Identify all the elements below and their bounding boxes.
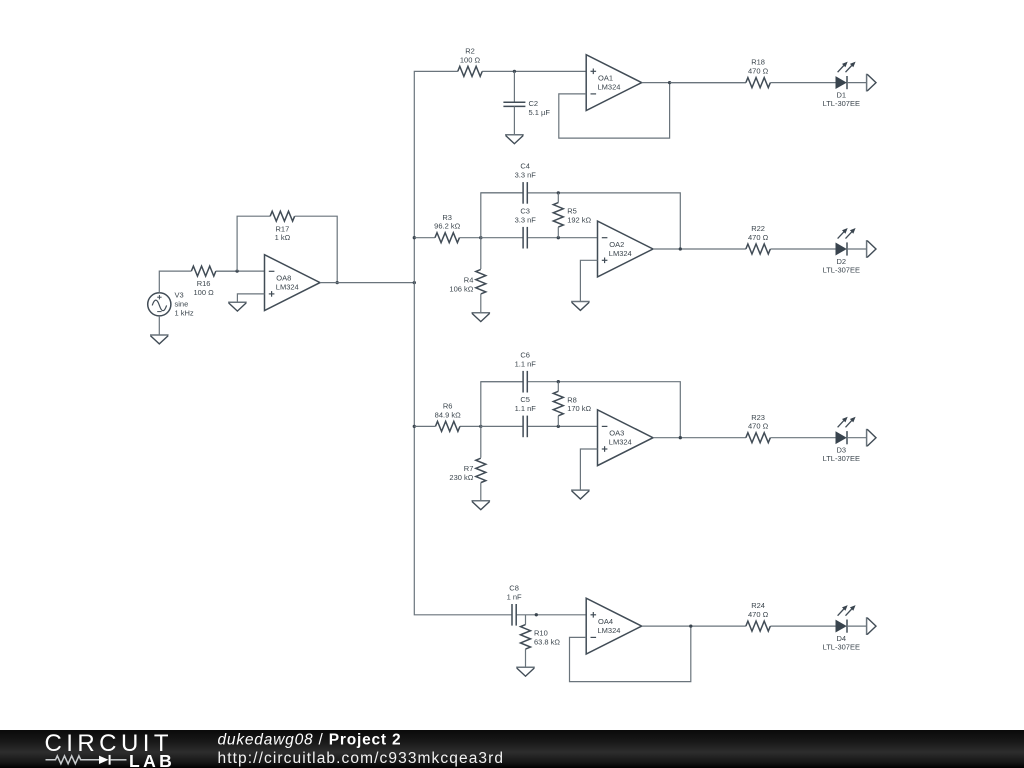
- svg-text:63.8 kΩ: 63.8 kΩ: [534, 638, 560, 647]
- svg-text:R8: R8: [567, 395, 577, 404]
- node C6/R8 junction: [557, 380, 560, 383]
- svg-text:LM324: LM324: [609, 438, 632, 447]
- node OA3 output junction: [679, 436, 682, 439]
- svg-text:170 kΩ: 170 kΩ: [567, 404, 591, 413]
- terminal output 3: [867, 429, 876, 447]
- resistor R24: [746, 601, 836, 631]
- svg-text:R16: R16: [197, 279, 211, 288]
- wire OA4 output: [642, 625, 746, 627]
- ground below C2: [505, 135, 524, 144]
- svg-text:1 nF: 1 nF: [507, 592, 522, 601]
- terminal output 1: [867, 74, 876, 92]
- node bus row 2 tap: [413, 236, 416, 239]
- resistor R4: [449, 269, 485, 312]
- svg-text:1.1 nF: 1.1 nF: [515, 404, 537, 413]
- ground at OA2 + input: [571, 302, 590, 311]
- resistor R3: [414, 213, 481, 243]
- node OA1 output junction: [668, 81, 671, 84]
- node bus row 3 tap: [413, 425, 416, 428]
- svg-text:sine: sine: [175, 300, 189, 309]
- wire row3 input node vertical: [481, 382, 523, 458]
- wire D3 to terminal: [847, 437, 867, 439]
- svg-text:LM324: LM324: [276, 283, 299, 292]
- op-amp OA8: [265, 255, 321, 311]
- node C5/R8 junction: [557, 425, 560, 428]
- terminal output 4: [867, 617, 876, 635]
- svg-text:1 kHz: 1 kHz: [175, 309, 194, 318]
- wire OA2 output: [653, 248, 746, 250]
- wire up to R17: [237, 216, 270, 271]
- wire OA8 output to bus: [320, 282, 414, 284]
- LED D3: [823, 417, 860, 463]
- capacitor C6: [481, 351, 559, 393]
- node C8/R10 junction: [535, 613, 538, 616]
- node R6/R7/C5/C6 junction: [479, 425, 482, 428]
- svg-text:106 kΩ: 106 kΩ: [449, 284, 473, 293]
- svg-text:LM324: LM324: [598, 626, 621, 635]
- svg-text:230 kΩ: 230 kΩ: [449, 473, 473, 482]
- svg-text:LTL-307EE: LTL-307EE: [823, 643, 860, 652]
- svg-text:R10: R10: [534, 629, 548, 638]
- capacitor C5: [481, 395, 559, 437]
- wire D2 to terminal: [847, 248, 867, 250]
- wire top rail to OA3 output: [558, 382, 680, 438]
- wire R16 to OA8 inverting input: [216, 270, 265, 272]
- svg-text:3.3 nF: 3.3 nF: [515, 215, 537, 224]
- node R3/R4/C3/C4 junction: [479, 236, 482, 239]
- LED D1: [823, 62, 860, 108]
- svg-text:C5: C5: [520, 395, 530, 404]
- wire OA2 + input to ground: [580, 260, 597, 301]
- wire OA3 output: [653, 437, 746, 439]
- svg-text:LTL-307EE: LTL-307EE: [823, 265, 860, 274]
- logo diode: [99, 755, 109, 763]
- node OA2 output junction: [679, 247, 682, 250]
- svg-text:OA2: OA2: [609, 240, 624, 249]
- wire row2 input node vertical: [481, 193, 523, 269]
- op-amp OA2: [598, 221, 654, 277]
- capacitor C8: [507, 584, 587, 626]
- svg-text:R6: R6: [443, 402, 453, 411]
- node C3/R5 junction: [557, 236, 560, 239]
- svg-text:LTL-307EE: LTL-307EE: [823, 99, 860, 108]
- svg-text:R18: R18: [751, 58, 765, 67]
- node OA8 feedback junction: [336, 281, 339, 284]
- svg-text:LTL-307EE: LTL-307EE: [823, 454, 860, 463]
- capacitor C4: [481, 162, 559, 204]
- svg-text:R7: R7: [464, 464, 474, 473]
- node bus/OA8 output: [413, 281, 416, 284]
- ground below R10: [516, 667, 535, 676]
- svg-text:dukedawg08 / Project 2: dukedawg08 / Project 2: [218, 731, 402, 748]
- resistor R17: [270, 211, 294, 242]
- resistor R6: [414, 402, 481, 432]
- wire top rail to OA2 output: [558, 193, 680, 249]
- node C4/R5 junction: [557, 191, 560, 194]
- svg-text:100 Ω: 100 Ω: [193, 288, 214, 297]
- wire OA1 output: [642, 82, 746, 84]
- svg-text:C8: C8: [509, 584, 519, 593]
- svg-text:84.9 kΩ: 84.9 kΩ: [435, 410, 461, 419]
- svg-text:470 Ω: 470 Ω: [748, 233, 769, 242]
- svg-text:C3: C3: [520, 207, 530, 216]
- wire V3 bottom lead: [158, 316, 160, 335]
- svg-text:3.3 nF: 3.3 nF: [515, 171, 537, 180]
- LED D4: [823, 605, 860, 651]
- resistor R18: [670, 58, 836, 88]
- wire C5 to OA3 inverting input: [558, 425, 597, 427]
- terminal output 2: [867, 240, 876, 258]
- svg-text:C2: C2: [529, 99, 539, 108]
- wire V3 top lead: [159, 271, 191, 293]
- svg-text:470 Ω: 470 Ω: [748, 422, 769, 431]
- wire OA4 feedback loop: [570, 626, 691, 682]
- svg-text:LAB: LAB: [129, 751, 175, 768]
- wire C3 to OA2 inverting input: [558, 237, 597, 239]
- node R2/C2 junction: [513, 70, 516, 73]
- node OA4 output junction: [689, 624, 692, 627]
- svg-text:1.1 nF: 1.1 nF: [515, 359, 537, 368]
- svg-text:R5: R5: [567, 207, 577, 216]
- svg-text:R23: R23: [751, 413, 765, 422]
- svg-text:470 Ω: 470 Ω: [748, 610, 769, 619]
- ground below R7: [472, 501, 491, 510]
- svg-text:96.2 kΩ: 96.2 kΩ: [434, 222, 460, 231]
- wire D4 to terminal: [847, 625, 867, 627]
- resistor R22: [746, 224, 836, 254]
- svg-text:C6: C6: [520, 351, 530, 360]
- svg-text:100 Ω: 100 Ω: [460, 55, 481, 64]
- svg-text:5.1 µF: 5.1 µF: [529, 108, 551, 117]
- svg-text:C4: C4: [520, 162, 530, 171]
- resistor R23: [746, 413, 836, 443]
- resistor R7: [449, 458, 485, 501]
- resistor R5: [553, 193, 591, 238]
- node R16/R17 junction: [235, 269, 238, 272]
- svg-text:R2: R2: [465, 47, 475, 56]
- ground at OA3 + input: [571, 490, 590, 499]
- svg-text:R22: R22: [751, 224, 765, 233]
- svg-text:470 Ω: 470 Ω: [748, 67, 769, 76]
- CircuitLab logo schematic squiggle (resistor + diode): [46, 755, 100, 763]
- wire OA8 noninverting input to ground: [237, 294, 264, 302]
- resistor R2: [458, 47, 515, 77]
- ground at OA8 + input: [228, 302, 247, 311]
- svg-text:V3: V3: [175, 290, 184, 299]
- op-amp OA1: [586, 55, 642, 111]
- wire OA3 + input to ground: [580, 449, 597, 490]
- svg-text:LM324: LM324: [609, 249, 632, 258]
- capacitor C3: [481, 207, 559, 249]
- svg-text:OA8: OA8: [276, 274, 291, 283]
- svg-text:R3: R3: [442, 213, 452, 222]
- wire vertical bus: [414, 71, 512, 614]
- resistor R10: [521, 615, 561, 668]
- voltage source V3: [148, 290, 194, 317]
- op-amp OA4: [586, 598, 642, 654]
- svg-text:1 kΩ: 1 kΩ: [275, 233, 291, 242]
- svg-text:192 kΩ: 192 kΩ: [567, 216, 591, 225]
- LED D2: [823, 228, 860, 274]
- svg-text:OA1: OA1: [598, 74, 613, 83]
- ground below R4: [472, 313, 491, 322]
- resistor R16: [191, 266, 237, 297]
- wire R2 to OA1 + input: [514, 70, 586, 72]
- svg-text:OA3: OA3: [609, 429, 624, 438]
- svg-text:OA4: OA4: [598, 617, 613, 626]
- wire R17 to OA8 output: [295, 216, 338, 282]
- svg-text:R24: R24: [751, 601, 765, 610]
- ground below V3: [150, 335, 169, 344]
- resistor R8: [553, 382, 591, 427]
- svg-text:R4: R4: [464, 276, 474, 285]
- svg-text:http://circuitlab.com/c933mkcq: http://circuitlab.com/c933mkcqea3rd: [218, 750, 505, 767]
- svg-text:R17: R17: [276, 224, 290, 233]
- svg-text:LM324: LM324: [598, 83, 621, 92]
- capacitor C2: [503, 71, 550, 134]
- wire D1 to terminal: [847, 82, 867, 84]
- wire OA1 feedback loop: [559, 83, 670, 139]
- op-amp OA3: [598, 410, 654, 466]
